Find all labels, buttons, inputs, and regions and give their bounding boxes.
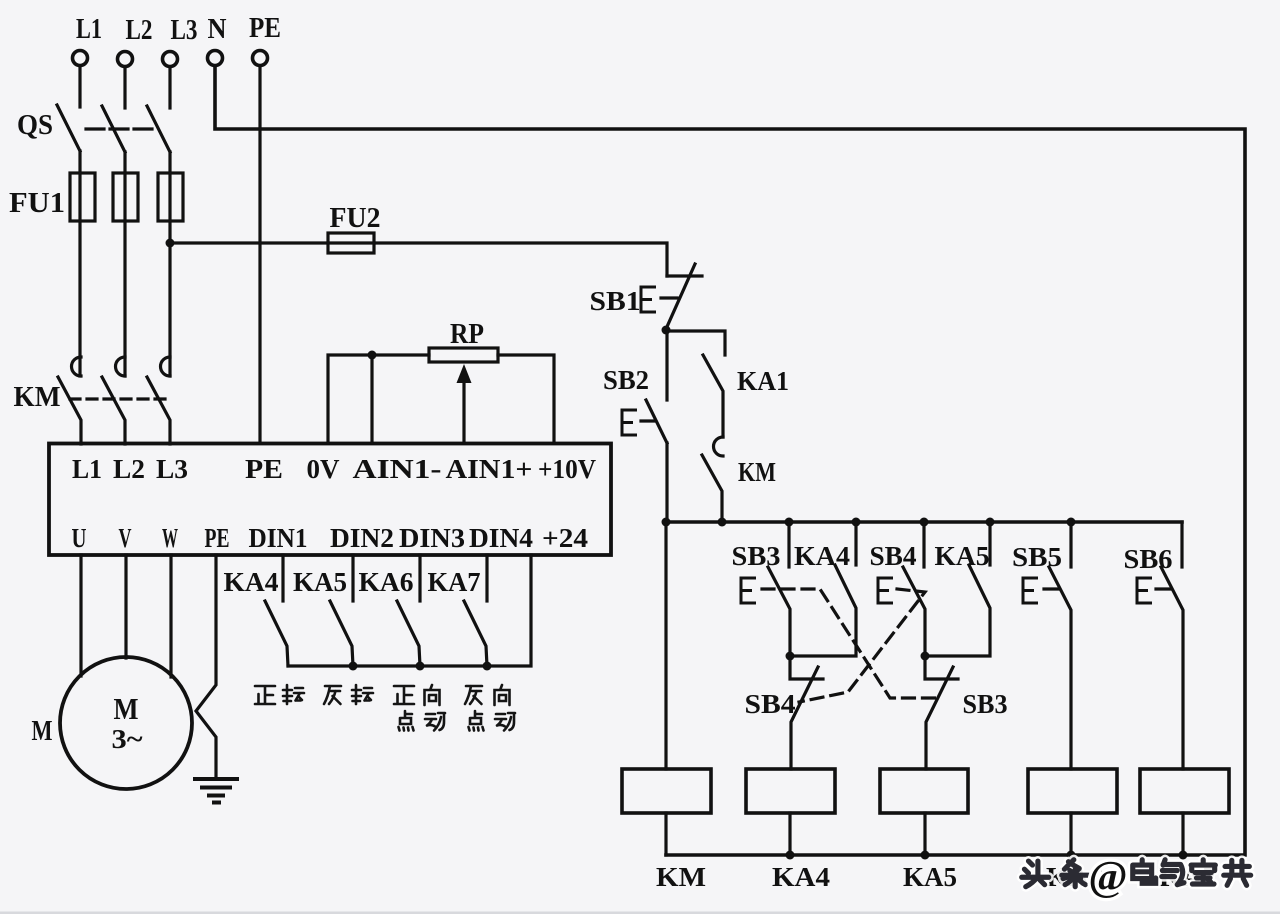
wire DIN1 stub [281,555,284,601]
pushbutton SB3 NC interlock [925,656,958,679]
switch QS pole1 [57,105,80,151]
relay contact KA4 seal-in [790,565,856,656]
svg-text:N: N [208,13,227,45]
wire KM coil to bottom bus [664,813,667,855]
svg-text:DIN1: DIN1 [249,523,308,553]
fuse FU1 pole2 [113,173,138,221]
switch QS pole3 [147,106,170,152]
motor M circle [60,657,192,789]
wire AIN1- rise [370,355,373,443]
actuator E of SB2 [622,410,637,435]
wire V to motor [124,555,127,658]
pushbutton SB5 NO contact [1049,567,1071,769]
terminal N [208,51,223,66]
svg-text:M: M [114,691,139,726]
actuator E of SB6 [1137,578,1152,603]
svg-text:SB3: SB3 [963,689,1008,719]
fuse FU2 [328,233,374,253]
wire PE drop [258,66,261,443]
node SB1 bottom [662,326,671,335]
wire L3 drop [168,67,171,108]
svg-text:V: V [119,523,132,553]
actuator E of SB5 [1023,578,1038,603]
svg-text:KA6: KA6 [359,567,414,597]
terminal L3 [163,52,178,67]
SB5 actuator dash [1044,587,1058,590]
svg-text:FU1: FU1 [9,187,65,219]
svg-text:SB2: SB2 [603,365,649,395]
svg-text:L3: L3 [171,14,198,46]
wire SB6 drop [1180,522,1183,567]
svg-text:KA4: KA4 [224,567,279,597]
contactor aux contact KM [702,455,722,522]
svg-text:AIN1-: AIN1- [353,454,442,484]
svg-text:M: M [32,715,53,747]
SB1 actuator dash [661,296,677,299]
svg-text:KA7: KA7 [428,567,481,597]
svg-text:SB6: SB6 [1124,544,1173,574]
relay contact KA4 [265,601,288,666]
wire 0V rise [328,355,429,443]
wire DIN3 stub [418,555,421,601]
terminal L2 [118,52,133,67]
node L3-FU2 junction [166,239,175,248]
node bus KA5 [986,518,995,527]
svg-text:KA5: KA5 [935,541,990,571]
wire N to right rail [215,66,1245,855]
svg-text:FU2: FU2 [330,202,381,234]
bottom edge artifact line [0,912,1280,914]
node bottom KA5 [921,851,930,860]
wire to FU2 and SB1 [170,243,667,276]
wire L2 drop [123,67,126,108]
pushbutton SB1 NC contact [667,274,702,277]
svg-text:KA4: KA4 [794,541,850,571]
node bus SB2 [662,518,671,527]
coil KA5 [880,769,968,813]
wire L2 to fuse [123,152,126,376]
switch QS pole2 [102,106,125,152]
svg-text:SB4: SB4 [745,689,796,719]
wire KM coil branch [664,522,667,769]
KM aux contact arc [714,437,724,456]
node bus KM aux [718,518,727,527]
svg-text:KM: KM [14,381,61,413]
node SB4/KA5 merge [921,652,930,661]
pushbutton SB2 NO contact [646,400,667,443]
relay contact KA6 [397,601,420,666]
node bottom KA4 [786,851,795,860]
wire L3 to fuse [168,152,171,376]
svg-text:+10V: +10V [538,454,596,484]
wire KA5 drop [988,522,991,565]
svg-text:@: @ [1088,854,1127,900]
wire PE to ground [196,555,216,779]
svg-text:PE: PE [205,523,230,553]
terminal PE [253,51,268,66]
svg-text:DIN3: DIN3 [399,523,465,553]
node bus SB5 [1067,518,1076,527]
label zhengxiang diandong (fwd jog) [394,686,414,704]
QS linkage dashed [86,127,152,130]
svg-text:QS: QS [17,109,53,141]
wire L1 drop [78,66,81,107]
watermark toutiao@dianqibaodian [1022,860,1251,887]
svg-text:KA1: KA1 [737,366,789,396]
pushbutton SB6 NO contact [1161,567,1183,769]
svg-text:KA5: KA5 [903,862,957,892]
node RP left junction [368,351,377,360]
svg-text:KA4: KA4 [772,862,830,892]
svg-text:SB3: SB3 [732,541,781,571]
SB2 actuator dash [641,419,654,422]
wire SB3 drop [787,522,790,567]
relay contact KA5 seal-in [925,565,990,656]
node bus SB4 [920,518,929,527]
wire SB2 branch top [665,330,668,400]
contactor KM pole3 arc [161,357,171,376]
wire U to motor [79,555,82,676]
wire SB4 drop [922,522,925,567]
coil KA7 [1140,769,1229,813]
svg-text:DIN4: DIN4 [469,523,533,553]
wire L1 to fuse [78,151,81,376]
node bottom KA6 [1067,851,1076,860]
wire DIN2 stub [351,555,354,601]
coil KA4 [746,769,835,813]
mechanical linkage SB3 dashed [762,589,936,698]
node KA7 bus [483,662,492,671]
svg-text:KA5: KA5 [293,567,347,597]
svg-text:SB4: SB4 [870,541,917,571]
node bus KA4 [852,518,861,527]
svg-text:L1: L1 [76,13,102,45]
SB6 actuator dash [1156,587,1170,590]
contactor KM pole1 arc [72,357,82,376]
contactor KM pole2 arc [116,357,126,376]
relay contact KA7 [464,601,487,666]
wire SB2 to bus [665,443,668,522]
wire KA7 coil to bottom bus [1181,813,1184,855]
coil KA6 [1028,769,1117,813]
wire SB5 drop [1069,522,1072,567]
potentiometer RP body [429,348,498,362]
svg-text:KM: KM [738,457,776,487]
wire +10V rise [498,355,554,443]
actuator E of SB3 [741,578,756,603]
pushbutton SB3 NO contact [768,567,790,656]
pushbutton SB4 NO contact [903,567,925,656]
mechanical linkage SB4 dashed [799,589,925,702]
wire KA4 drop [854,522,857,565]
contactor KM pole1 blade [58,377,81,444]
svg-text:L2: L2 [113,454,145,484]
svg-text:KM: KM [656,862,706,892]
node bus SB3 [785,518,794,527]
contactor KM pole2 blade [102,377,125,444]
coil KM [622,769,711,813]
svg-text:RP: RP [450,318,484,350]
terminal L1 [73,51,88,66]
actuator E of SB4 [878,578,893,603]
svg-text:U: U [72,523,87,553]
DIN common bus to +24 [288,555,531,666]
wire SB1 node to KA1 branch [666,331,725,355]
svg-text:L2: L2 [126,14,153,46]
actuator E of SB1 [641,287,656,312]
wire W to motor [169,555,172,677]
svg-text:DIN2: DIN2 [330,523,394,553]
contactor KM pole3 blade [147,377,170,444]
label fanzhuan (reverse) [324,686,341,704]
svg-text:W: W [162,523,178,553]
node KA6 bus [416,662,425,671]
relay contact KA1 [703,355,723,437]
svg-text:0V: 0V [307,454,341,484]
inverter box U1 [49,444,611,556]
pushbutton SB4 NC interlock [790,656,823,679]
svg-text:3~: 3~ [112,724,143,754]
ground symbol [195,777,237,781]
wire KA5 coil to bottom bus [923,813,926,855]
control bus top [666,520,1182,524]
fuse FU1 pole1 [70,173,95,221]
svg-text:PE: PE [249,12,281,44]
svg-text:+24: +24 [542,523,588,553]
svg-text:AIN1+: AIN1+ [446,454,533,484]
RP wiper arrow [462,383,465,443]
svg-text:L1: L1 [72,454,102,484]
svg-text:PE: PE [245,454,283,484]
label zhengzhuan (forward) [255,686,275,704]
wire KA6 coil to bottom bus [1069,813,1072,855]
svg-text:L3: L3 [156,454,188,484]
wire KA4 coil to bottom bus [788,813,791,855]
node SB3/KA4 merge [786,652,795,661]
node KA5 bus [349,662,358,671]
relay contact KA5 [330,601,353,666]
wire DIN4 stub [485,555,488,601]
fuse FU1 pole3 [158,173,183,221]
svg-text:SB5: SB5 [1012,542,1062,572]
node bottom KA7 [1179,851,1188,860]
label fanxiang diandong (rev jog) [465,686,482,704]
svg-text:SB1: SB1 [590,286,641,316]
KM linkage dashed [70,397,165,400]
